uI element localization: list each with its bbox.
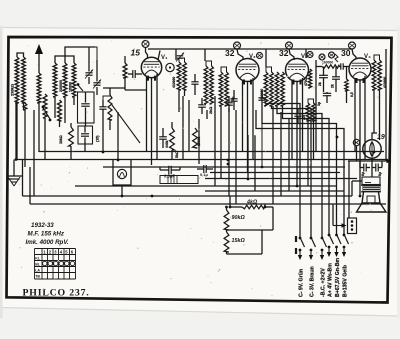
wire v x248b [247,135,249,179]
RF coil L3b [63,63,67,97]
speaker cone [357,203,387,212]
battery lead -B.C. +2×2V [321,237,324,240]
wire stair 2 [272,106,312,237]
capacitor C6 [99,106,106,108]
svg-text:▬▬: ▬▬ [365,180,371,184]
terminal strip box [348,218,357,234]
svg-text:0,5: 0,5 [350,92,354,97]
wire bus y152 [39,151,384,153]
resistor R1 1Mohm [69,127,74,146]
IF transformer T1a [177,62,181,90]
wire R8 leads [230,206,242,208]
IF transformer T2c [219,72,223,106]
svg-text:8µ: 8µ [361,172,365,176]
wire L8 frame [308,99,314,103]
pilot lamp [117,169,126,178]
wire C12a leads [323,67,325,76]
rectifier tube V5 (19) [363,140,381,158]
capacitor C12a [319,74,328,76]
scan top margin band [0,0,400,31]
wire trimmer column [88,47,90,63]
svg-text:2k: 2k [331,84,335,88]
wire T2c frame [221,67,227,72]
IF1 trimmer [177,55,183,57]
capacitor box 2 [78,126,93,144]
wire V5 left [356,146,358,161]
wire V2 pins [242,81,244,152]
svg-text:15000: 15000 [197,136,201,146]
speaker field box [362,177,380,185]
svg-text:V₁: V₁ [161,55,168,61]
wire bus y173 [210,172,340,174]
wire divider mid [226,230,228,232]
wire C1 leads [88,63,90,72]
diagonal wire AVC [112,105,140,143]
wire V4 pins [354,79,356,152]
wire v x207 [206,110,208,119]
tone unit hatch [167,176,169,184]
battery lead B+135V Gelb [343,234,346,237]
oscillator coil L5 [58,100,62,121]
capacitor C12b [332,76,340,78]
wire L3 top bus [55,56,74,63]
wire v x34 [33,110,35,196]
svg-text:3µ: 3µ [317,102,321,106]
wire v x215 [214,96,216,186]
junction dots row [15,158,18,161]
tube V3 grid cap [286,42,293,49]
scan speckle noise [134,79,135,80]
svg-text:-B.C. +2×2V: -B.C. +2×2V [320,268,326,297]
arrow to frame right [384,160,391,162]
tube V1 grid cap [142,41,149,48]
wire bus y191 [205,190,344,192]
battery cell mark b [295,248,297,254]
wire divider top [226,207,228,210]
filter capacitor C19 [375,164,377,172]
wire L2 down [38,103,40,152]
svg-text:LA: LA [35,269,40,273]
wire C17 leads [197,168,204,170]
capacitor C13 [198,104,206,106]
svg-text:V₄: V₄ [364,54,371,60]
svg-text:0,1µ: 0,1µ [200,172,209,177]
wire R7 leads [171,122,173,128]
tube V2 grid cap [234,42,241,49]
wire L1b down [23,103,25,110]
wire L6 leads [124,56,126,63]
svg-text:160000: 160000 [322,61,333,65]
wire L4 frame [44,118,46,160]
svg-text:C- 3V. Braun: C- 3V. Braun [309,266,315,297]
wire V5 bottom [371,158,373,177]
svg-text:PHILCO 237.: PHILCO 237. [23,288,90,299]
wire padder down [85,123,87,126]
wire C2 leads [96,72,98,82]
wire V1 pins [146,77,148,152]
wire v x273 [272,106,274,204]
tube V2 (32) envelope [236,59,259,82]
arrow into terminal strip [333,225,346,227]
wire C5 leads [128,73,133,75]
wire box2 down [84,144,86,152]
coil L7 [308,69,311,88]
wire divider bottom [226,252,228,254]
wire v x25 [24,110,26,167]
wire C15 leads [162,128,164,137]
wire v x176 [175,54,177,60]
antenna coil L1 winding a [15,57,19,103]
wire corner x22 [22,160,24,197]
small circle b2 [307,52,313,58]
resistor R9 90k [224,210,229,230]
wire T3 frame [266,67,272,72]
wire bus y167 [103,166,345,168]
capacitor C5 [132,70,134,78]
wire R5 leads [316,66,322,68]
IF transformer T3a [264,72,268,106]
padder capacitor box [78,92,95,123]
capacitor C10c [323,92,331,94]
wire v x262b [261,110,263,167]
svg-text:B+135V Gelb: B+135V Gelb [342,265,348,297]
scan left edge [0,26,3,318]
IF transformer T2a [204,66,208,104]
wire v x255 [254,135,256,191]
svg-text:470Ω: 470Ω [304,77,308,86]
svg-text:15kΩ: 15kΩ [232,238,246,244]
svg-text:19: 19 [377,134,385,141]
capacitor C4 [81,133,89,135]
battery cell mark a [295,236,297,242]
wire terminal drop [332,204,334,226]
wire lamp bottom [121,185,123,196]
battery lead C- 9V. Grün [299,237,302,240]
battery lead C- 3V. Braun [310,237,313,240]
wire x316 drop [315,60,317,152]
small circle 45 [319,54,325,60]
capacitor C14 [225,102,233,104]
wire V5 top [372,133,377,140]
wire T4 frame [374,55,380,60]
wire V3 pins [291,81,293,160]
wire C16 leads [160,169,169,171]
wire T2 frame [206,61,212,66]
resistor R4b [345,79,348,91]
wire right margin v [385,49,387,161]
svg-text:TB: TB [35,275,40,279]
IF transformer T2d [225,72,229,106]
valve table [35,248,76,250]
coupling coil L6 [123,63,127,78]
wire V4 cap lead [352,49,356,59]
coil L8a [306,103,309,121]
wire C9 leads [261,90,263,98]
small circle V5 [353,139,359,145]
wire stair 5 [262,110,337,234]
wire C14 leads [228,96,230,103]
wire lamp sides [112,160,114,166]
tube V4 (30) envelope [349,58,371,80]
diode circle D1 [166,63,174,71]
antenna coil L2 [37,73,41,103]
wire bus y179 [205,178,357,180]
junction dot stair [336,136,339,139]
svg-text:(15): (15) [96,135,100,142]
wire T4 down b [379,90,381,140]
wire R1 leads [70,123,72,127]
wire R8 up [229,196,231,207]
wire V3 cap lead [289,49,294,60]
grid resistor R2 [108,95,112,120]
svg-text:2kΩ: 2kΩ [209,107,213,114]
tube V1 (15) envelope [141,57,161,77]
svg-text:4kΩ: 4kΩ [246,200,258,206]
svg-text:B+67,5V Gn-Bm: B+67,5V Gn-Bm [335,258,341,297]
capacitor C7 [191,81,198,83]
wire h y90 [125,89,147,91]
wire cap frame [360,164,382,171]
wire stair 3 [277,106,322,237]
wire L1 top link [17,53,24,57]
wire grid link [103,96,110,100]
wire L3a down [54,97,56,118]
wire V1 cap lead [146,48,148,59]
trimmer capacitor C1 [85,72,92,74]
wire bus y204 [30,203,386,205]
wire v x189 [188,100,190,152]
wire stair 4 [283,106,330,234]
scan bottom margin band [0,308,400,339]
filter capacitor C18 [363,164,365,172]
IF transformer T3b [270,72,274,106]
svg-text:V₂: V₂ [249,54,256,60]
tube V3 (32) envelope [286,59,309,82]
tone unit box [160,176,198,184]
resistor R10 15k [224,232,229,252]
wire h y88 [103,87,125,89]
wire top bus risers [175,49,177,54]
coil L8b [312,103,315,121]
svg-text:C- 9V. Grün: C- 9V. Grün [298,269,304,297]
wire R2 leads [109,88,111,95]
small circle b1 [257,53,263,59]
wire V1 plate to top bus [158,51,160,61]
resistor R7 [170,128,175,150]
pilot lamp box [113,165,131,185]
wire C4 leads [84,126,86,133]
scan right edge [397,26,400,318]
IF transformer T3d [281,72,285,106]
svg-text:410000: 410000 [260,89,264,100]
svg-text:15000: 15000 [69,82,73,92]
wire v x236 [235,110,237,204]
svg-text:410000: 410000 [172,77,176,88]
wire C10c leads [326,92,328,93]
svg-text:A+ 4V Ws-Bm: A+ 4V Ws-Bm [327,263,333,297]
wire v x103 [102,118,104,152]
wire L3 mid top [64,56,66,63]
trimmer capacitor C2 [93,82,100,84]
wire speaker left [352,180,362,182]
svg-text:230kΩ: 230kΩ [10,83,15,96]
svg-text:90kΩ: 90kΩ [232,215,246,221]
oscillator coil L4 [43,94,47,118]
wire C6 leads [102,100,104,107]
wire top link C1C2 [89,47,97,60]
capacitor C15 [159,136,167,138]
wire stair 1 [266,104,300,238]
wire R4b leads [346,67,348,80]
wire v x221 [220,106,222,179]
lightning mark [335,54,338,62]
border frame [7,37,392,303]
wire v x199 [198,119,200,164]
svg-text:BL: BL [35,263,41,267]
battery lead B+67,5V Gn-Bm [335,234,338,237]
RF coil L3a [53,63,57,97]
wire T4 down a [373,90,375,133]
wire C13 leads [201,98,203,105]
speaker transformer winding [363,185,381,192]
capacitor C16 0,5uF [168,166,170,174]
wire v x281 [280,112,282,196]
svg-text:3µ: 3µ [231,97,235,101]
RF coil L3c [72,63,76,97]
grid resistor R5 horizontal [322,65,339,68]
wire L3b down [64,97,66,123]
svg-text:M.F. 155 kHz: M.F. 155 kHz [28,231,65,238]
switch S2 tap [78,85,83,91]
antenna coil L1 winding b [22,57,26,103]
wire bus y186 [75,185,337,187]
wire L5 down [59,121,61,127]
wire C12b leads [335,67,337,77]
speaker basket [362,192,380,203]
svg-text:1932-33: 1932-33 [31,222,54,229]
output transformer T4b [378,60,382,90]
resistor R8 4k horizontal [242,205,265,209]
wire L3c down [73,97,75,105]
svg-text:2k: 2k [318,82,322,86]
svg-text:15: 15 [131,48,141,58]
wire gnd stem [13,160,15,177]
wire C3 leads [85,92,87,103]
wire v x289 [288,118,290,191]
wire C7 leads [194,74,196,82]
wire v x349 [348,161,350,218]
wire bus y160 [16,159,388,161]
small circle b3 [329,52,335,58]
wire C8 leads [233,90,235,99]
wire L3 riser [65,47,95,56]
speaker transformer core [361,184,381,186]
IF transformer T3c [275,72,279,106]
battery lead A+ 4V Ws-Bm [328,234,331,237]
wire corner x30 [29,167,31,204]
wire v x16 [15,103,17,160]
wire v x229 [228,108,230,196]
wire top bus y50 [148,48,352,50]
IF transformer T1b [183,62,187,90]
svg-text:5kΩ: 5kΩ [175,151,179,158]
wire stair 6 [256,110,344,234]
svg-text:Imk. 4000 RpV.: Imk. 4000 RpV. [26,239,69,246]
IF transformer T2b [210,66,214,104]
svg-text:440k: 440k [165,140,169,148]
capacitor C9 [258,97,265,99]
wire v x118 [117,112,119,160]
svg-text:KL: KL [35,257,41,261]
resistor R6 [193,128,198,148]
svg-text:8µ: 8µ [378,172,382,176]
padder capacitor C3 [81,103,89,105]
svg-text:230000: 230000 [59,80,63,92]
wire antenna base [16,103,18,160]
wire bus y196 [23,195,353,197]
tube V4 grid cap [349,42,356,49]
capacitor C17 [203,165,205,173]
capacitor C9c [294,113,301,115]
wire v x183 [182,96,184,160]
antenna arrow [38,50,40,73]
wire V2 cap lead [237,49,243,60]
wire C9c leads [297,108,299,114]
capacitor C11 [340,63,342,69]
band switch S1 [43,108,50,119]
wire T1 frame [179,58,185,62]
capacitor C8 [230,98,237,100]
output transformer T4a [372,60,376,90]
ground symbol [6,175,22,177]
svg-text:1MΩ: 1MΩ [58,134,63,144]
